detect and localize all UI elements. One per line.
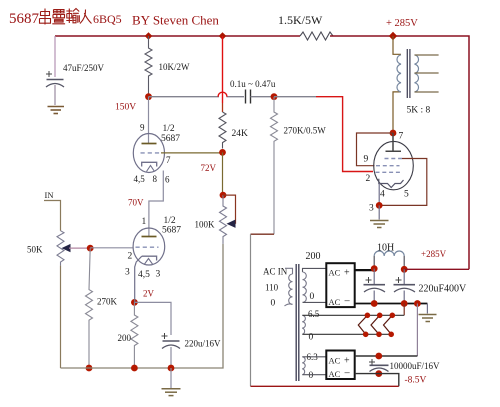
nodes on diode rails bbox=[365, 313, 371, 319]
svg-text:200: 200 bbox=[306, 251, 321, 262]
node: choke in bbox=[371, 265, 378, 272]
svg-text:0: 0 bbox=[309, 371, 314, 381]
svg-text:5: 5 bbox=[404, 190, 409, 200]
svg-text:4,5: 4,5 bbox=[134, 174, 146, 184]
svg-text:AC: AC bbox=[329, 369, 341, 379]
svg-text:0: 0 bbox=[310, 292, 315, 302]
svg-text:AC: AC bbox=[329, 356, 341, 366]
wire: right B+ bus segment to right edge bbox=[330, 36, 469, 269]
capacitor 0.1u~0.47u bbox=[246, 90, 251, 104]
wire: red drop from bus to 24K with hop bbox=[222, 36, 224, 103]
wire: bus down to 10000uF + bbox=[416, 304, 418, 357]
svg-text:5687: 5687 bbox=[9, 11, 40, 27]
svg-text:3: 3 bbox=[369, 204, 374, 214]
power supply bbox=[251, 243, 470, 387]
node: bus to 10000uF branch bbox=[414, 300, 421, 307]
tube V2 6BQ5 bbox=[374, 141, 414, 189]
wire: bias vertical down to -8.5V rail bbox=[250, 234, 252, 386]
svg-text:1/2: 1/2 bbox=[163, 124, 175, 134]
cathode tube2 bbox=[142, 256, 157, 260]
input stage bbox=[27, 190, 223, 396]
secondary taps bbox=[415, 55, 439, 92]
node: 10000uF top bbox=[375, 353, 382, 360]
svg-text:−: − bbox=[344, 368, 350, 380]
capacitor 10000uF/16V bbox=[369, 359, 440, 372]
wire: bus down to heater diode rail bbox=[403, 304, 405, 316]
node: cap1 on bus bbox=[371, 300, 378, 307]
svg-text:270K/0.5W: 270K/0.5W bbox=[284, 126, 327, 136]
svg-text:100K: 100K bbox=[195, 220, 216, 230]
svg-text:BY Steven Chen: BY Steven Chen bbox=[132, 13, 219, 28]
svg-text:24K: 24K bbox=[232, 129, 249, 139]
resistor 10K/2W bbox=[145, 36, 152, 97]
wire: rect1 - output bus bbox=[355, 303, 428, 305]
node: 270K / grid feed junction bbox=[271, 93, 278, 100]
potentiometer 100K bbox=[220, 195, 227, 244]
svg-text:+: + bbox=[344, 268, 350, 279]
node: bus junction +285V at OPT bbox=[389, 32, 397, 40]
wire: plate feed tube1 bbox=[148, 97, 150, 143]
svg-text:220uF400V: 220uF400V bbox=[419, 284, 468, 295]
svg-text:4: 4 bbox=[380, 190, 385, 200]
svg-text:6BQ5: 6BQ5 bbox=[93, 12, 122, 26]
node: 10000uF bottom bbox=[375, 370, 382, 377]
wire: rect1 + output bbox=[355, 269, 375, 271]
rectifier box 1 bbox=[326, 263, 354, 307]
svg-text:70V: 70V bbox=[128, 198, 144, 208]
svg-text:AC: AC bbox=[329, 297, 341, 307]
output transformer 5K:8 bbox=[393, 36, 439, 133]
wire: coupling cap to 270K node bbox=[251, 96, 275, 98]
node: 200 at rail bbox=[131, 365, 138, 372]
wire: +285V to right edge bbox=[404, 268, 469, 270]
node: bus junction at 10K bbox=[145, 32, 153, 40]
svg-text:-8.5V: -8.5V bbox=[405, 376, 427, 386]
primary humps bbox=[397, 55, 401, 92]
diode chevron 1 bbox=[358, 315, 367, 334]
svg-text:0.1u ~ 0.47u: 0.1u ~ 0.47u bbox=[230, 79, 276, 89]
rectifier box 2 bbox=[326, 351, 354, 380]
wire: tube1 cathode (pin6) to tube2 plate bbox=[149, 171, 163, 237]
top B+ bus wire bbox=[46, 13, 469, 269]
title bbox=[9, 9, 219, 28]
node: pin3 bbox=[376, 202, 383, 209]
tube U1a 1/2 5687 (upper) bbox=[133, 134, 164, 173]
wire: tube1 grid to 24K node bbox=[161, 152, 223, 154]
wiper arrow of 50K bbox=[62, 244, 71, 252]
串 bbox=[40, 9, 51, 25]
plate 6BQ5 bbox=[386, 133, 402, 151]
svg-text:6.5: 6.5 bbox=[308, 309, 320, 319]
resistor 24K bbox=[219, 112, 226, 149]
svg-text:10000uF/16V: 10000uF/16V bbox=[390, 361, 441, 371]
plate bar tube1 bbox=[142, 143, 157, 145]
wire: diode top rail bbox=[303, 314, 405, 316]
output stage bbox=[251, 36, 439, 386]
secondary humps bbox=[415, 55, 419, 92]
ground (6BQ5 cathode) bbox=[370, 205, 389, 227]
resistor 270K bbox=[86, 248, 93, 368]
resistor 270K/0.5W bbox=[271, 97, 278, 235]
core bbox=[407, 49, 410, 98]
svg-text:10K/2W: 10K/2W bbox=[159, 62, 191, 72]
primary wires bbox=[393, 36, 401, 54]
wire: to 6BQ5 grid bbox=[274, 96, 316, 98]
svg-text:IN: IN bbox=[45, 190, 54, 200]
node 72V bbox=[219, 149, 226, 156]
svg-text:2V: 2V bbox=[143, 289, 155, 299]
svg-text:1/2: 1/2 bbox=[164, 216, 176, 226]
svg-text:3: 3 bbox=[125, 268, 130, 278]
wire: cathode to pin3 node bbox=[378, 184, 380, 206]
svg-text:+285V: +285V bbox=[421, 249, 447, 259]
power transformer core bbox=[296, 264, 299, 381]
capacitor 220uF 400V (second) bbox=[394, 269, 468, 303]
capacitor 47uF/250V bbox=[46, 36, 105, 105]
svg-text:9: 9 bbox=[364, 155, 369, 165]
node: cathode 2V bbox=[131, 299, 138, 306]
入 bbox=[80, 10, 92, 24]
svg-text:6: 6 bbox=[165, 175, 170, 185]
svg-text:72V: 72V bbox=[201, 163, 217, 173]
svg-text:7: 7 bbox=[166, 155, 171, 165]
wire: 72V node down to 100K bbox=[222, 152, 224, 195]
svg-text:5687: 5687 bbox=[162, 226, 181, 236]
wire: junction to tube2 grid bbox=[90, 247, 133, 249]
node: grid junction (wiper / 270K) bbox=[87, 245, 94, 252]
wire: g2 box pin9 to pin7 bbox=[357, 133, 394, 166]
choke 10H bbox=[373, 256, 375, 269]
svg-text:0: 0 bbox=[271, 299, 276, 309]
wire: 2V node to bypass cap bbox=[134, 302, 171, 335]
g2 dashes bbox=[376, 165, 400, 167]
svg-text:5687: 5687 bbox=[161, 134, 180, 144]
svg-text:270K: 270K bbox=[97, 297, 118, 307]
svg-text:7: 7 bbox=[399, 132, 404, 142]
resistor 200 (cathode) bbox=[131, 302, 138, 368]
wire: left B+ bus segment bbox=[55, 35, 300, 37]
node: bus junction at 24K feed bbox=[219, 32, 227, 40]
node: 270K at rail bbox=[86, 365, 93, 372]
potentiometer 50K bbox=[57, 231, 64, 266]
driver tubes bbox=[125, 97, 248, 303]
cathode 6BQ5 bbox=[379, 179, 404, 188]
wire: 270K bottom jog to bias line bbox=[251, 233, 275, 235]
wire: rect2 + output bbox=[355, 355, 418, 357]
svg-text:+ 285V: + 285V bbox=[386, 18, 418, 29]
wire: diode bottom rail bbox=[303, 333, 392, 335]
diode chevron 3 bbox=[384, 315, 393, 334]
疊 bbox=[52, 10, 65, 24]
svg-text:5K : 8: 5K : 8 bbox=[407, 106, 431, 116]
wire: 150V node to coupling cap bbox=[149, 96, 220, 98]
resistor 1.5K/5W bbox=[300, 32, 333, 40]
wire: input to 50K pot top bbox=[44, 201, 61, 231]
svg-text:2: 2 bbox=[128, 252, 133, 262]
primary winding bbox=[285, 268, 293, 274]
svg-text:4,5: 4,5 bbox=[138, 270, 150, 280]
node: cap2 on bus bbox=[401, 300, 408, 307]
svg-text:47uF/250V: 47uF/250V bbox=[63, 63, 105, 73]
svg-text:−: − bbox=[344, 296, 350, 308]
wire: 50K bottom to bottom rail bbox=[60, 266, 62, 368]
svg-text:9: 9 bbox=[140, 123, 145, 133]
svg-text:+: + bbox=[344, 356, 350, 367]
ground (signal rail) bbox=[162, 368, 181, 396]
svg-text:220u/16V: 220u/16V bbox=[185, 339, 222, 349]
tube U1b 1/2 5687 (lower) bbox=[133, 228, 165, 265]
svg-text:10H: 10H bbox=[377, 243, 394, 254]
wire: -8.5V rail bbox=[251, 385, 399, 387]
svg-text:3: 3 bbox=[156, 270, 161, 280]
svg-text:110: 110 bbox=[265, 283, 279, 293]
node: choke out bbox=[401, 266, 408, 273]
capacitor 220u/16V bbox=[162, 333, 222, 368]
svg-text:1: 1 bbox=[142, 217, 147, 227]
wiper loop of 100K bbox=[223, 195, 236, 224]
svg-text:1.5K/5W: 1.5K/5W bbox=[278, 13, 323, 27]
svg-text:2: 2 bbox=[366, 174, 371, 184]
ground (47uF) bbox=[48, 107, 65, 114]
node: 6BQ5 plate pin7 bbox=[390, 130, 397, 137]
plate bar tube2 bbox=[142, 236, 157, 238]
g3 dashes bbox=[385, 158, 403, 160]
wire: bottom rail bbox=[61, 244, 224, 368]
node: cap at rail bbox=[168, 365, 175, 372]
svg-text:8: 8 bbox=[153, 174, 158, 184]
svg-text:AC: AC bbox=[329, 268, 341, 278]
輸 bbox=[66, 9, 79, 24]
wire: beam plates to cathode node bbox=[379, 159, 427, 206]
g1 dashes bbox=[376, 171, 401, 173]
svg-text:200: 200 bbox=[118, 333, 132, 343]
cathode tube1 bbox=[142, 162, 157, 166]
svg-text:AC IN: AC IN bbox=[263, 267, 288, 277]
grid dashes tube1 bbox=[141, 152, 162, 154]
wire: rect2 - output bbox=[355, 374, 399, 387]
capacitor 220uF 400V (first) bbox=[364, 269, 386, 304]
node: 100K top bbox=[220, 192, 227, 199]
diode chevron 2 bbox=[371, 315, 380, 334]
grid dashes tube2 bbox=[136, 246, 159, 248]
svg-text:50K: 50K bbox=[27, 245, 43, 255]
ground (PSU bus) bbox=[419, 304, 437, 322]
svg-text:150V: 150V bbox=[115, 103, 136, 113]
hand-drawn CJK glyphs 串疊輸入 bbox=[40, 9, 92, 25]
node 150V bbox=[145, 93, 152, 100]
